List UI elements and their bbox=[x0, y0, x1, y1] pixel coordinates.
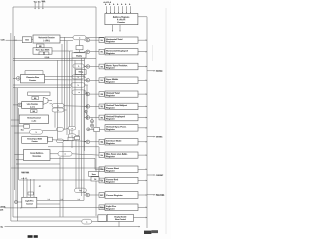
svg-text:Counter: Counter bbox=[29, 79, 36, 82]
svg-text:VSYNC: VSYNC bbox=[156, 137, 163, 139]
svg-text:Counter: Counter bbox=[117, 21, 125, 24]
svg-text:MA0 MA4: MA0 MA4 bbox=[22, 171, 30, 174]
svg-text:Horizontal Counter: Horizontal Counter bbox=[39, 36, 55, 39]
svg-text:Character Row: Character Row bbox=[26, 76, 39, 79]
svg-text:+5: +5 bbox=[39, 186, 41, 188]
svg-text:Skew Control: Skew Control bbox=[115, 218, 126, 221]
svg-text:Register: Register bbox=[106, 128, 115, 131]
svg-text:R14: R14 bbox=[100, 206, 103, 209]
svg-text:( +2 ): ( +2 ) bbox=[32, 121, 37, 123]
svg-text:P 2: P 2 bbox=[21, 130, 24, 132]
svg-text:R4: R4 bbox=[101, 93, 103, 96]
svg-text:Light Pen: Light Pen bbox=[25, 199, 33, 202]
svg-text:+ +: + + bbox=[78, 199, 80, 201]
svg-text:Register: Register bbox=[106, 80, 115, 83]
svg-text:Register: Register bbox=[106, 207, 115, 210]
svg-text:Line Counter: Line Counter bbox=[27, 103, 38, 106]
svg-text:R8: R8 bbox=[101, 142, 103, 144]
svg-text:R5: R5 bbox=[101, 106, 103, 108]
svg-text:( +5 ): ( +5 ) bbox=[30, 107, 35, 109]
svg-text:Display: Display bbox=[76, 56, 82, 58]
svg-text:Vₛₛ: Vₛₛ bbox=[38, 2, 41, 4]
svg-text:+ +: + + bbox=[48, 199, 50, 201]
svg-text:Register: Register bbox=[106, 107, 115, 110]
svg-text:R2: R2 bbox=[101, 66, 103, 68]
svg-text:Register: Register bbox=[106, 181, 115, 184]
svg-text:R6: R6 bbox=[101, 117, 103, 119]
svg-text:RA0-RA4: RA0-RA4 bbox=[156, 194, 165, 197]
svg-text:Csr: Csr bbox=[79, 190, 82, 192]
svg-text:Vertical Control: Vertical Control bbox=[27, 117, 41, 120]
svg-text:CLK: CLK bbox=[1, 39, 6, 41]
svg-text:Linear Address: Linear Address bbox=[30, 152, 43, 155]
svg-text:Cursor Register: Cursor Register bbox=[106, 194, 123, 197]
svg-text:H.Dsp: H.Dsp bbox=[79, 72, 84, 74]
svg-text:Register: Register bbox=[106, 169, 115, 172]
svg-text:Register: Register bbox=[106, 118, 115, 121]
svg-text:Control: Control bbox=[26, 202, 33, 205]
svg-text:CCLK: CCLK bbox=[45, 57, 50, 59]
svg-text:R1: R1 bbox=[101, 52, 103, 54]
svg-text:Register: Register bbox=[106, 40, 115, 43]
svg-text:CUDISP: CUDISP bbox=[156, 175, 164, 177]
svg-text:R3: R3 bbox=[101, 80, 103, 82]
svg-text:R0: R0 bbox=[101, 40, 103, 42]
svg-text:( +256 ): ( +256 ) bbox=[44, 40, 51, 42]
svg-text:Register: Register bbox=[106, 67, 115, 70]
svg-text:R9: R9 bbox=[101, 155, 103, 157]
svg-text:Register: Register bbox=[106, 52, 115, 55]
svg-text:Generator: Generator bbox=[33, 155, 42, 158]
svg-text:Register: Register bbox=[106, 155, 115, 158]
svg-text:HSYNC: HSYNC bbox=[156, 71, 163, 73]
svg-text:Register: Register bbox=[106, 142, 115, 145]
svg-text:Register: Register bbox=[106, 94, 115, 97]
svg-text:Vᴄᴄ: Vᴄᴄ bbox=[34, 2, 37, 4]
